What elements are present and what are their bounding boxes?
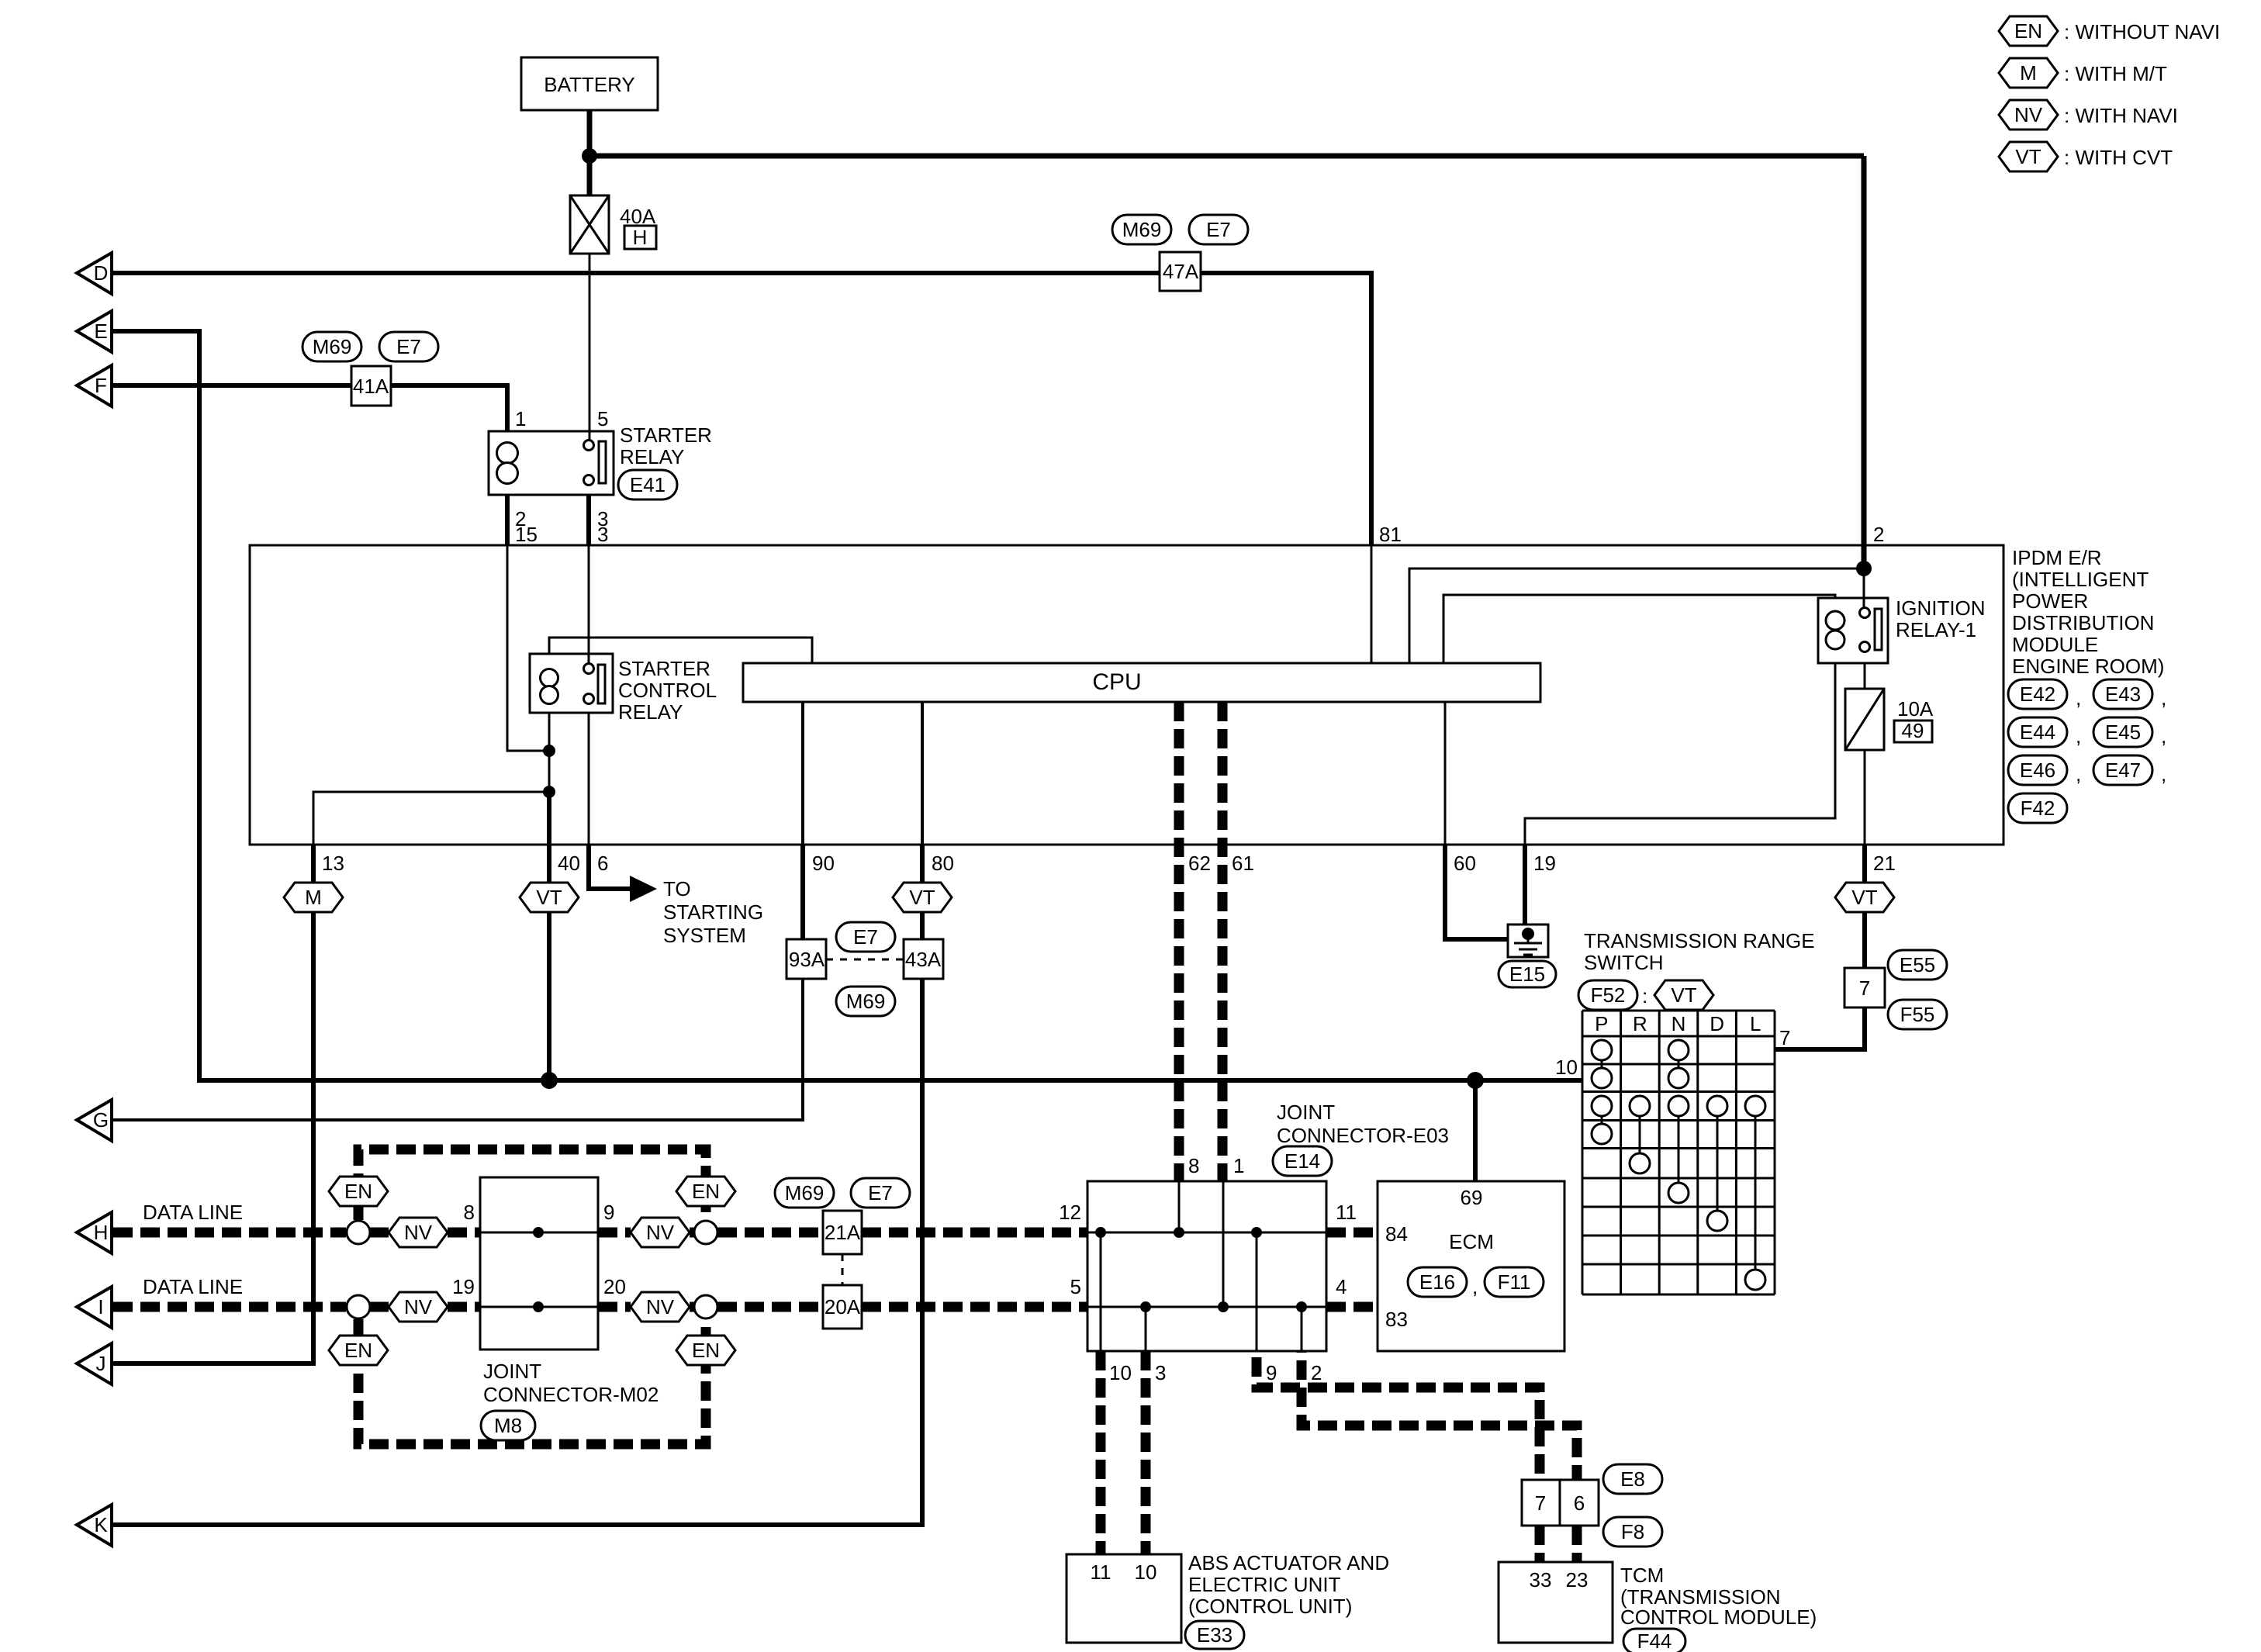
wire H circle to NV [370,1228,389,1238]
ECM box [1378,1181,1564,1351]
wire NV to M02 pin 19 [448,1302,480,1312]
node open circle H right [694,1221,717,1244]
svg-text:RELAY: RELAY [618,700,683,724]
node starter control junction 2 [543,786,555,798]
svg-text:NV: NV [2014,103,2043,126]
svg-text:15: 15 [515,523,538,546]
svg-text:1: 1 [1233,1154,1244,1177]
connector F42 oval [2008,793,2067,823]
svg-text:E8: E8 [1620,1467,1645,1491]
wire CPU pin 90 [801,702,804,845]
wire junction to pin 13 [313,792,549,845]
svg-text:VT: VT [2015,145,2041,168]
node E03 dot 10 [1095,1227,1106,1238]
svg-text:(INTELLIGENT: (INTELLIGENT [2012,568,2149,591]
ignition relay contact [1860,608,1882,652]
svg-text:CONTROL: CONTROL [618,679,717,702]
svg-text:5: 5 [1070,1275,1081,1298]
connector E47 oval [2093,755,2152,785]
wire E line to bus [112,331,199,1083]
svg-text:,: , [1472,1275,1478,1298]
svg-text:,: , [2161,724,2166,748]
connector E16 oval [1408,1267,1467,1297]
svg-text:E33: E33 [1197,1623,1232,1647]
connector 6 (E8/F8) [1560,1480,1599,1526]
wire pin 6 to starting system [589,845,630,889]
flag EN top left [329,1177,388,1206]
svg-text:K: K [94,1513,108,1536]
svg-text:F42: F42 [2021,797,2055,820]
svg-text:RELAY-1: RELAY-1 [1896,618,1976,641]
starter control relay box [530,654,613,713]
flag EN bottom left [329,1336,388,1365]
svg-text:RELAY: RELAY [620,445,684,468]
svg-text:NV: NV [404,1295,433,1318]
svg-text:9: 9 [603,1201,614,1224]
svg-text:F52: F52 [1591,983,1626,1007]
svg-text:69: 69 [1461,1186,1483,1209]
svg-text:21: 21 [1873,852,1896,875]
svg-text:33: 33 [1530,1568,1552,1592]
svg-text:E: E [94,320,107,343]
svg-text:E45: E45 [2105,721,2141,744]
svg-text:E7: E7 [396,335,421,358]
svg-text:13: 13 [322,852,344,875]
node open circle I left [347,1295,370,1318]
svg-text:EN: EN [344,1180,372,1203]
svg-text:60: 60 [1454,852,1476,875]
svg-text:STARTER: STARTER [618,657,710,680]
svg-text:VT: VT [1851,886,1877,909]
node E03 dot 3 [1140,1301,1151,1312]
svg-text:23: 23 [1566,1568,1589,1592]
wire fuse 10A to pin 21 [1864,750,1866,845]
wire E03 pin 4 to ECM 83 [1326,1302,1378,1312]
node open circle H left [347,1221,370,1244]
wire CPU pin 80 [921,702,924,845]
wire CPU to ignition relay contact feed [1409,569,1864,663]
flag NV (H left) [389,1218,448,1247]
svg-text:JOINT: JOINT [1277,1101,1335,1124]
M02 internal line H [480,1232,598,1234]
flag EN top right [676,1177,735,1206]
wire pin 13 to M flag [311,845,316,883]
svg-text:M69: M69 [313,335,352,358]
wire D line [112,273,1371,545]
starter relay E41 box [489,431,614,495]
battery [521,57,658,110]
svg-text:84: 84 [1385,1222,1408,1246]
CPU box [743,663,1540,702]
wire I circle to NV [370,1302,389,1312]
svg-text:BATTERY: BATTERY [544,73,635,96]
svg-text:F55: F55 [1900,1003,1935,1026]
connector 21A [823,1211,862,1254]
svg-text:ECM: ECM [1449,1230,1494,1253]
svg-text:E47: E47 [2105,759,2141,782]
connector M69 oval (47A) [1112,215,1171,244]
svg-text:2: 2 [1873,523,1884,546]
connector F8 oval [1603,1517,1662,1547]
ignition relay coil [1826,611,1844,649]
svg-text:CONTROL MODULE): CONTROL MODULE) [1620,1605,1817,1629]
node E03 dot 9 [1251,1227,1262,1238]
wire pin 60 to ground [1445,845,1508,939]
svg-text:3: 3 [1155,1361,1166,1384]
svg-text:POWER: POWER [2012,589,2088,613]
wire junction to junction [548,751,551,792]
svg-text:,: , [2161,762,2166,786]
connector M8 oval [481,1411,535,1440]
flag VT (pin 80) [893,883,952,912]
svg-text:41A: 41A [353,375,389,398]
wire junction to fuse 40A [587,156,593,195]
svg-text:11: 11 [1091,1560,1111,1584]
TCM box [1499,1562,1613,1643]
wire 93A to G line [112,979,803,1120]
svg-text:6: 6 [597,852,608,875]
svg-text:10: 10 [1135,1560,1157,1584]
connector 93A [787,939,826,979]
svg-text:F44: F44 [1637,1630,1672,1652]
joint connector M02 box [480,1177,598,1350]
svg-text:G: G [93,1108,109,1132]
svg-text:CPU: CPU [1092,669,1141,695]
wire F line to starter relay pin 1 [112,385,507,431]
wire VT to connector 7 [1862,912,1867,968]
E03 internal line upper [1087,1232,1326,1234]
ignition relay-1 box [1818,598,1888,663]
flag VT (pin 21) [1835,883,1894,912]
flag M (pin 13) [284,883,343,912]
svg-text:E41: E41 [630,473,666,496]
connector E55 oval [1888,950,1947,980]
svg-text:3: 3 [597,523,608,546]
connector E42 oval [2008,679,2067,709]
connector E44 oval [2008,717,2067,747]
svg-text:EN: EN [692,1339,720,1362]
svg-text:,: , [2076,762,2081,786]
wire CPU pin 62 shielded [1174,702,1184,1181]
joint connector E03 box [1087,1181,1326,1351]
M02 internal line I [480,1306,598,1308]
svg-text:7: 7 [1535,1491,1546,1515]
svg-text:JOINT: JOINT [483,1360,541,1383]
svg-text:P: P [1595,1012,1608,1035]
wire E03 dot to pin 9 [1256,1232,1258,1351]
arrow E [77,311,112,352]
svg-text:E44: E44 [2020,721,2055,744]
svg-text:11: 11 [1336,1201,1357,1224]
transmission range switch grid [1582,1011,1775,1294]
svg-text:8: 8 [464,1201,475,1224]
fuse 10A 49 [1845,689,1934,750]
wire junction to pin 40 [547,792,551,845]
svg-text:10A: 10A [1897,697,1934,721]
svg-text:20: 20 [603,1275,626,1298]
connector 43A [904,939,943,979]
svg-text:ENGINE ROOM): ENGINE ROOM) [2012,655,2164,678]
wire E03 pin 3 to ABS 10 [1141,1351,1151,1554]
svg-text:M: M [305,886,322,909]
svg-text:E7: E7 [1206,218,1231,241]
wire battery to junction [587,110,593,159]
svg-text:7: 7 [1779,1026,1790,1049]
connector M69 oval (41A) [303,332,361,361]
svg-text:MODULE: MODULE [2012,633,2098,656]
connector 20A [823,1285,862,1329]
starter control relay contact [584,664,606,704]
svg-text:: WITH M/T: : WITH M/T [2064,62,2167,85]
connector E8 oval [1603,1464,1662,1494]
wire 21A to E03 pin 12 [862,1228,1087,1238]
svg-text::: : [1642,984,1647,1007]
connector F52 oval [1578,980,1637,1010]
svg-text:E42: E42 [2020,683,2055,706]
connector E33 oval [1185,1621,1244,1649]
wire NV to M02 pin 8 [448,1228,480,1238]
IPDM E/R box [250,545,2003,845]
svg-text:IPDM E/R: IPDM E/R [2012,546,2102,569]
arrow K [77,1505,112,1546]
svg-text:TRANSMISSION RANGE: TRANSMISSION RANGE [1584,929,1815,952]
svg-text:EN: EN [692,1180,720,1203]
svg-text:H: H [94,1221,109,1244]
wire feed down to IPDM pin 2 [1862,156,1867,569]
wire pin 81 to CPU [1371,545,1373,663]
svg-text:D: D [94,261,109,285]
svg-text:E46: E46 [2020,759,2055,782]
wire connector 7 to TRS pin 7 [1775,1007,1865,1049]
wire M02 pin 9 to NV [598,1228,631,1238]
TRS contact links [1602,1060,1755,1269]
connector E43 oval [2093,679,2152,709]
connector E7 oval (47A) [1189,215,1248,244]
connector E14 oval [1273,1146,1332,1176]
wire starter relay pin 3 to IPDM pin 3 [586,495,591,545]
wire H to 21A [717,1228,823,1238]
wire CPU to ignition relay coil [1443,595,1835,663]
arrow J [77,1343,112,1384]
starter relay contact [584,441,607,486]
wire E03 pin 2 to connector 6 [1302,1351,1577,1480]
wire data line I left [113,1302,346,1312]
starter relay coil [497,443,518,484]
TRS contact circles [1592,1040,1765,1290]
flag VT (TRS) [1654,980,1713,1010]
svg-text:: WITH NAVI: : WITH NAVI [2064,104,2178,127]
svg-text:CONNECTOR-E03: CONNECTOR-E03 [1277,1124,1449,1147]
arrow G [77,1100,112,1141]
svg-text:E15: E15 [1509,963,1545,986]
connector E15 oval [1499,961,1556,987]
svg-text:19: 19 [1533,852,1556,875]
wire starter relay pin 2 to IPDM pin 15 [505,495,510,545]
arrowhead to starting system [630,876,657,902]
connector E7 oval (41A) [379,332,438,361]
svg-text:STARTER: STARTER [620,423,712,447]
wire CPU pin 60 [1444,702,1447,845]
svg-text:NV: NV [646,1221,675,1244]
svg-text:19: 19 [452,1275,475,1298]
wire fuse to starter relay pin 5 [589,254,591,441]
wire EN loop bottom [358,1319,706,1444]
legend flag EN without navi [1999,16,2058,46]
svg-text:STARTING: STARTING [663,900,763,924]
ABS unit box [1067,1554,1181,1643]
wire E03 pin 11 to ECM 84 [1326,1228,1378,1238]
wire E03 dot to pin 1 [1222,1181,1225,1307]
flag VT (pin 40) [520,883,579,912]
wire M02 pin 20 to NV [598,1302,631,1312]
wire VT to 43A [920,912,925,939]
svg-text:E14: E14 [1284,1149,1320,1173]
wire pin 19 to ground [1523,845,1527,934]
node ignition feed junction [1856,561,1872,576]
svg-text:,: , [2161,686,2166,710]
svg-text:TO: TO [663,877,691,900]
svg-text:D: D [1710,1012,1724,1035]
connector F44 oval [1623,1629,1685,1652]
node E03 dot 1 [1218,1301,1229,1312]
svg-text:1: 1 [515,407,526,430]
wire control coil bottom to junctions [548,713,551,751]
wire E03 pin 9 to connector 7 [1257,1351,1540,1480]
svg-text:(CONTROL UNIT): (CONTROL UNIT) [1188,1595,1352,1618]
wire pin 3 to starter control relay [588,545,590,664]
svg-text:VT: VT [909,886,935,909]
dashed link 93A-43A [826,959,904,961]
svg-text:I: I [98,1295,103,1318]
wire NV to H circle right [690,1228,694,1238]
svg-text:M69: M69 [846,990,886,1013]
svg-text:VT: VT [1671,983,1696,1007]
connector 47A on D line [1160,252,1201,291]
fusible link 40A H [570,195,656,254]
svg-text:40: 40 [558,852,580,875]
node E03 dot 2 [1296,1301,1307,1312]
wire pin 90 to 93A [800,845,805,939]
svg-text:81: 81 [1379,523,1402,546]
svg-text:12: 12 [1059,1201,1081,1224]
wire CPU pin 61 shielded [1218,702,1228,1181]
legend flag M with M/T [1999,58,2058,88]
connector E46 oval [2008,755,2067,785]
svg-text:M69: M69 [1122,218,1162,241]
svg-text:DATA LINE: DATA LINE [143,1275,243,1298]
svg-text:M8: M8 [494,1414,522,1437]
svg-text:83: 83 [1385,1308,1408,1331]
svg-text:F8: F8 [1621,1520,1644,1543]
legend flag NV with navi [1999,100,2058,130]
svg-text:N: N [1672,1012,1686,1035]
svg-text:R: R [1633,1012,1647,1035]
node M02 dot I [533,1301,544,1312]
svg-text:61: 61 [1232,852,1254,875]
svg-text:EN: EN [344,1339,372,1362]
wire control coil top to CPU [549,638,812,663]
connector E41 oval [618,470,677,499]
svg-text:L: L [1750,1012,1761,1035]
arrow D [77,253,112,294]
svg-text:E55: E55 [1900,953,1935,976]
svg-text:DISTRIBUTION: DISTRIBUTION [2012,611,2154,634]
wire E03 dot to pin 8 [1178,1181,1181,1232]
svg-text:IGNITION: IGNITION [1896,596,1986,620]
svg-text:E43: E43 [2105,683,2141,706]
starter control relay coil [541,669,558,704]
svg-text:: WITH CVT: : WITH CVT [2064,146,2173,169]
wire pin 15 jog [507,545,548,751]
arrow I [77,1287,112,1328]
wire E03 dot to pin 3 [1145,1307,1147,1351]
svg-text:TCM: TCM [1620,1564,1664,1587]
connector 7 (E8/F8) [1522,1480,1560,1526]
wire NV to I circle right [690,1302,694,1312]
node M02 dot H [533,1227,544,1238]
wire VT flag to bus junction [547,912,551,1083]
svg-text:,: , [2076,686,2081,710]
svg-text:SYSTEM: SYSTEM [663,924,746,947]
dashed link 21A-20A [842,1254,844,1285]
svg-text:6: 6 [1574,1491,1585,1515]
svg-text:E16: E16 [1419,1270,1455,1294]
wire pin 21 to VT flag [1862,845,1867,883]
ground E15 [1508,924,1548,957]
svg-text:CONNECTOR-M02: CONNECTOR-M02 [483,1383,659,1406]
svg-text:,: , [2076,724,2081,748]
svg-text:M: M [2020,61,2037,85]
svg-text:DATA LINE: DATA LINE [143,1201,243,1224]
svg-text:J: J [96,1352,106,1375]
svg-text:: WITHOUT NAVI: : WITHOUT NAVI [2064,20,2220,43]
wire EN loop top [358,1149,706,1220]
flag NV (H right) [631,1218,690,1247]
node open circle I right [694,1295,717,1318]
wire pin 80 to VT flag [920,845,925,883]
wire bus to ECM pin 69 [1473,1080,1478,1181]
svg-text:10: 10 [1109,1361,1132,1384]
svg-text:SWITCH: SWITCH [1584,951,1664,974]
svg-text:E7: E7 [868,1181,893,1204]
svg-text:8: 8 [1188,1154,1199,1177]
svg-text:90: 90 [812,852,835,875]
wire 43A to K line [112,979,922,1525]
svg-text:7: 7 [1859,976,1870,1000]
wire main bus [199,1078,1582,1083]
arrow F [77,365,112,406]
wire E03 dot to pin 2 [1301,1307,1303,1351]
wire E03 pin 10 to ABS 11 [1096,1351,1106,1554]
connector E7 oval (21A) [851,1178,910,1208]
flag NV (I right) [631,1292,690,1322]
svg-text:M69: M69 [785,1181,825,1204]
svg-text:10: 10 [1555,1056,1578,1079]
svg-text:49: 49 [1902,719,1924,742]
svg-text:9: 9 [1266,1361,1277,1384]
wire ignition coil to pin 19 [1525,663,1835,845]
wire ignition contact to fuse 10A [1864,663,1866,689]
wire control contact to pin 6 [588,713,590,845]
connector F55 oval [1888,1000,1947,1029]
wire I to 20A [717,1302,823,1312]
E03 internal line lower [1087,1306,1326,1308]
connector 41A on F line [351,366,391,406]
node starter control junction 1 [543,745,555,757]
svg-text:93A: 93A [789,948,825,971]
wire M flag down to J line [112,912,313,1363]
svg-text:ABS ACTUATOR AND: ABS ACTUATOR AND [1188,1551,1389,1574]
